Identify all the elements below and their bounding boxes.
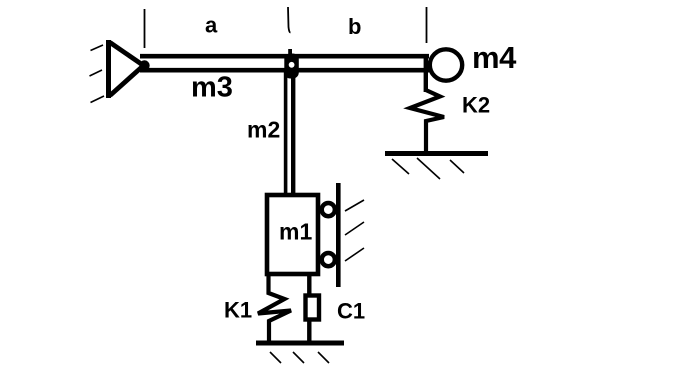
rod m2 right line: [291, 72, 295, 193]
joint blob at beam / rod connection: [284, 54, 299, 79]
ground line bottom: [256, 341, 344, 346]
wall line right of rollers: [336, 183, 341, 287]
svg-text:m2: m2: [247, 117, 280, 143]
svg-text:m1: m1: [279, 219, 312, 245]
svg-text:m4: m4: [472, 40, 517, 75]
ground hatch marks right: [392, 158, 464, 179]
roller bottom: [322, 253, 335, 266]
tick mark middle (over joint): [288, 7, 291, 33]
damper C1 box: [306, 296, 320, 320]
pivot support wall line: [106, 40, 111, 98]
svg-text:C1: C1: [337, 299, 365, 324]
damper C1 lower link: [307, 321, 311, 341]
roller top: [322, 203, 335, 216]
ground hatch marks bottom: [270, 352, 329, 363]
tick mark left (over pivot): [144, 9, 146, 48]
damper C1 upper link: [307, 276, 311, 295]
svg-text:a: a: [205, 13, 218, 38]
tick mark right (over m4): [426, 7, 428, 43]
beam m3 top line: [140, 54, 429, 59]
svg-text:K2: K2: [462, 93, 490, 118]
rod m2 left line: [284, 72, 288, 193]
pivot pin dot: [139, 60, 149, 70]
beam m3 bottom line: [140, 68, 429, 73]
wall hatch marks: [345, 200, 364, 261]
mass m1 rectangle: [267, 195, 318, 274]
ground line right: [385, 151, 488, 156]
post below beam end: [424, 56, 428, 92]
pivot triangle: [110, 43, 144, 96]
spring K1: [258, 276, 291, 341]
svg-text:K1: K1: [224, 298, 252, 323]
svg-text:m3: m3: [191, 72, 233, 104]
spring K2: [410, 90, 444, 152]
svg-text:b: b: [348, 14, 361, 39]
pivot support hatch marks: [90, 45, 105, 103]
mass m4 circle: [430, 49, 462, 80]
joint pin hole: [289, 62, 295, 68]
